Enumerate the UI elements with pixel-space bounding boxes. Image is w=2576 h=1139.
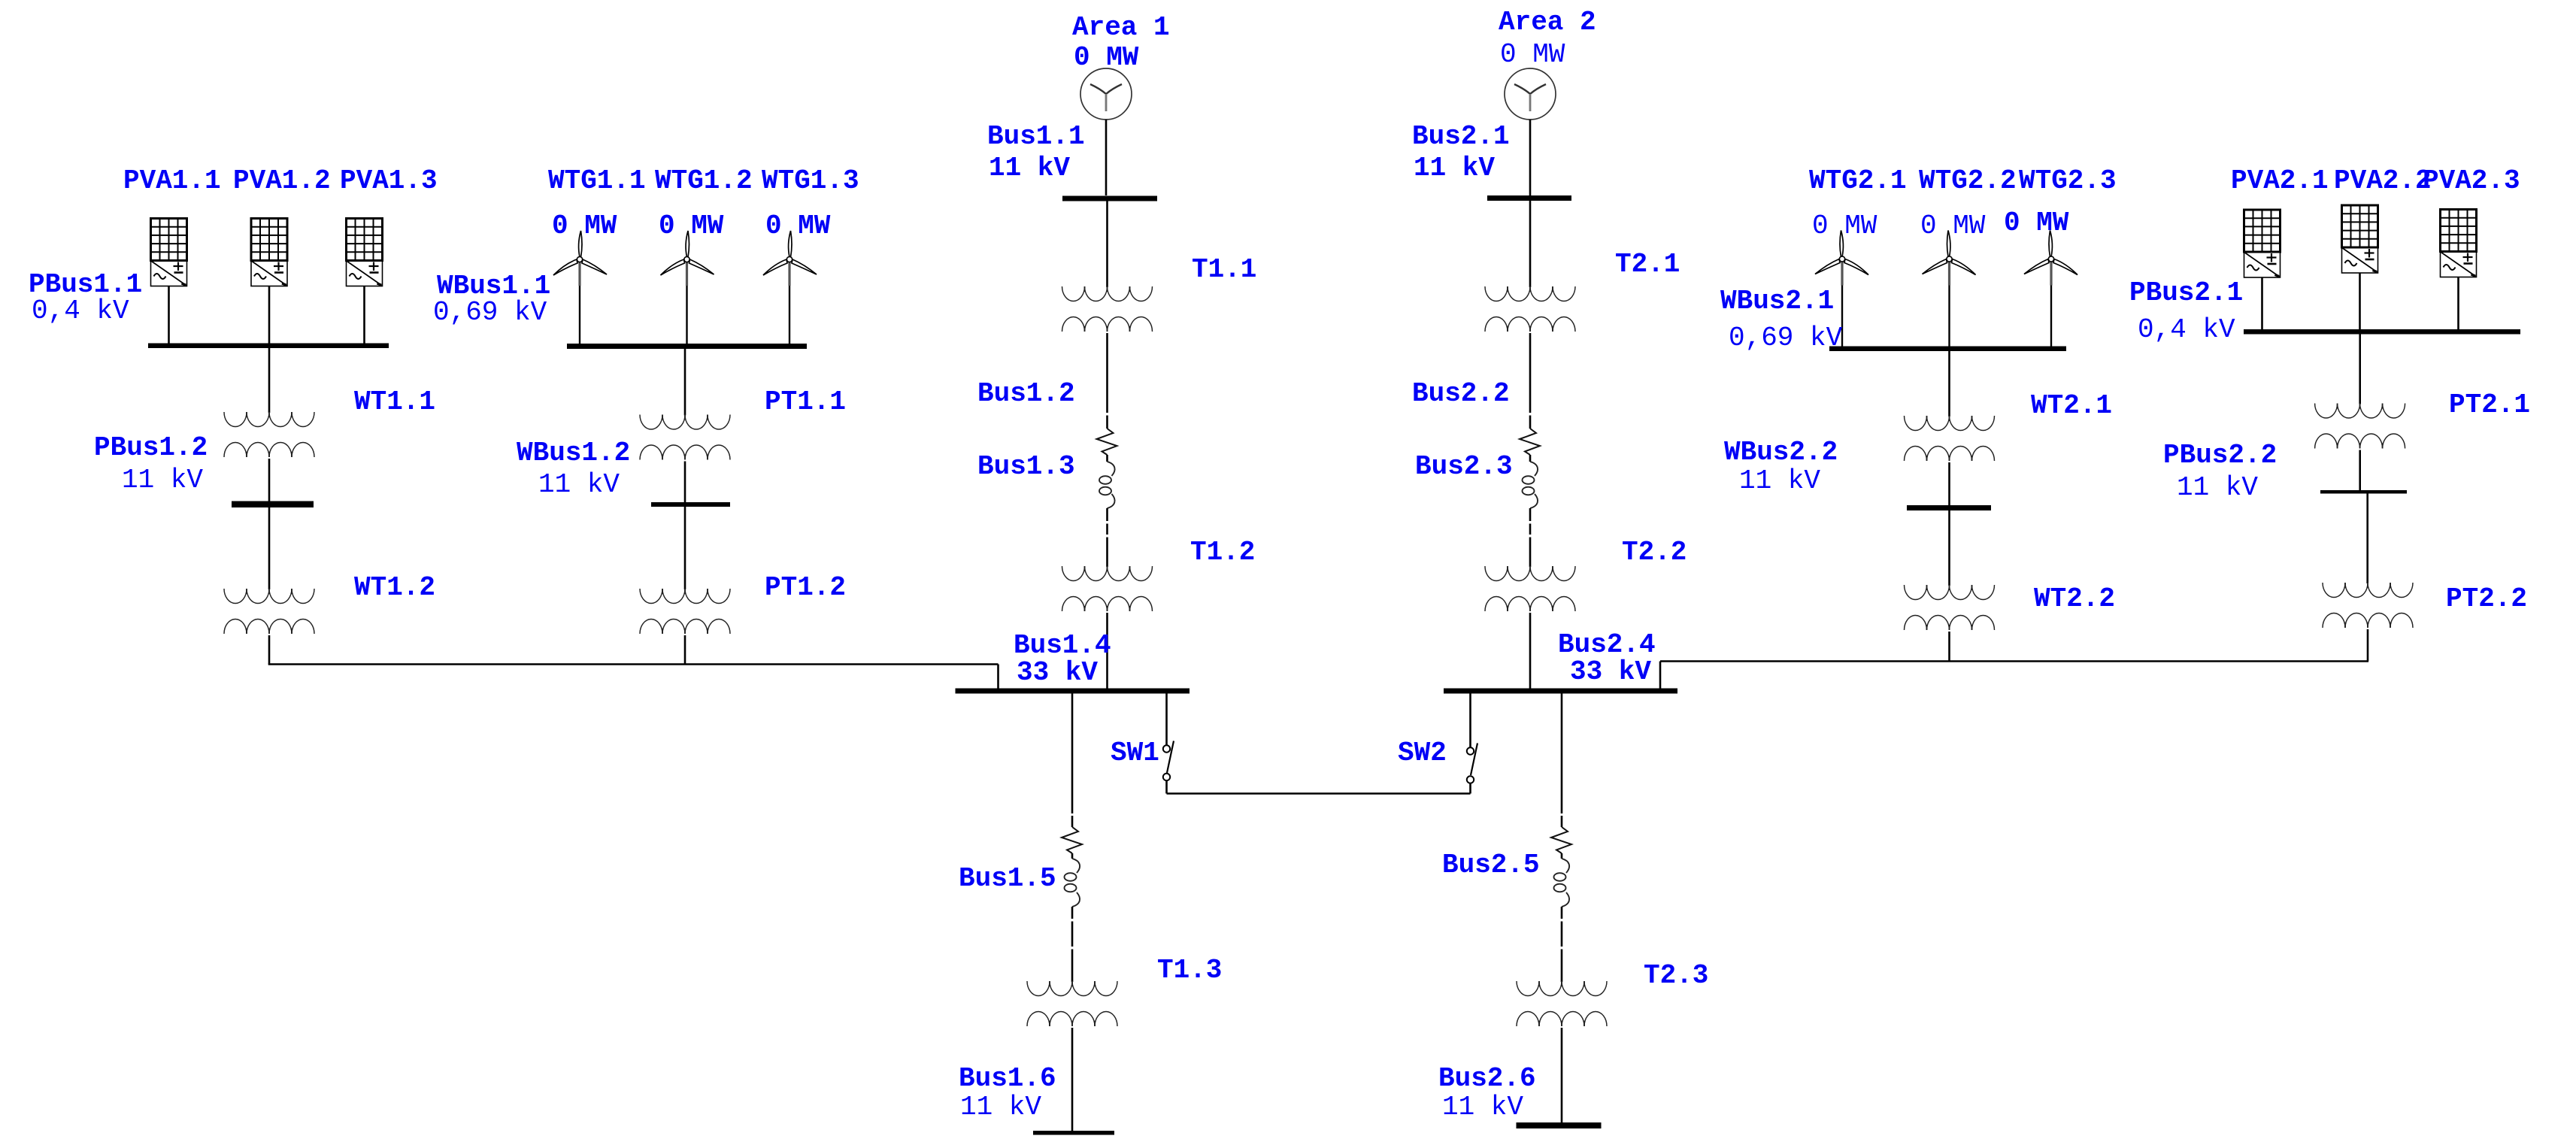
transformer PT1.2 — [640, 589, 730, 634]
wire T2.2 to Bus2.4 — [1529, 613, 1532, 689]
wire line to T1.2 b — [1106, 524, 1108, 535]
wire WBus1.2 to PT1.2 — [684, 507, 686, 589]
node label Bus2.3 — [1415, 451, 1513, 482]
bus PBus1.1 — [148, 344, 389, 349]
wire T1.1 to line Bus1.3 upper — [1106, 333, 1108, 413]
svg-text:Bus2.6: Bus2.6 — [1438, 1063, 1536, 1094]
transformer WT2.1 — [1905, 416, 1995, 461]
bus name Bus1.1 — [987, 121, 1085, 152]
wire PVA2.3 to PBus2.1 — [2457, 277, 2459, 330]
bus name WBus2.1 — [1720, 286, 1834, 317]
wind turbine WTG1.3 — [763, 231, 817, 344]
bus name WBus1.1 — [437, 271, 550, 301]
svg-text:Bus1.2: Bus1.2 — [977, 378, 1075, 409]
PV array PVA1.1 — [151, 219, 187, 286]
svg-text:T1.2: T1.2 — [1190, 537, 1255, 568]
node label Bus1.5 — [959, 863, 1056, 894]
wire line to T1.2 c — [1106, 538, 1108, 568]
svg-text:11 kV: 11 kV — [122, 465, 203, 495]
wire WT2.1 to WBus2.2 — [1948, 462, 1950, 505]
wire right collector drop to Bus2.4 — [1659, 662, 1662, 689]
svg-text:WTG1.2: WTG1.2 — [655, 165, 753, 196]
wire line to T2.2 c — [1529, 538, 1532, 568]
wire PVA2.2 to PBus2.1 — [2359, 273, 2361, 330]
bus WBus1.2 — [651, 502, 730, 507]
switch label SW2 — [1398, 738, 1447, 768]
svg-text:WBus2.1: WBus2.1 — [1720, 286, 1834, 317]
svg-text:T1.3: T1.3 — [1157, 955, 1222, 986]
bus voltage 11 kV — [122, 465, 203, 495]
wire PT1.2 down — [684, 635, 686, 665]
transformer WT2.2 — [1905, 585, 1995, 630]
svg-text:Bus2.5: Bus2.5 — [1442, 850, 1540, 880]
transformer PT1.1 — [640, 415, 730, 460]
wire T1.2 to Bus1.4 — [1106, 613, 1108, 689]
svg-text:0,4 kV: 0,4 kV — [2138, 314, 2235, 345]
wire T2.3 to Bus2.6 — [1561, 1028, 1563, 1122]
value label 0 MW WTG1.1 — [552, 211, 617, 241]
line reactor Bus2.5 — [1551, 827, 1571, 907]
transformer T2.3 — [1517, 981, 1607, 1026]
transformer T1.3 — [1027, 981, 1117, 1026]
value label 0 MW WTG2.3 — [2004, 208, 2069, 238]
bus voltage 0,4 kV — [32, 295, 129, 326]
wire PBus1.2 to WT1.2 — [268, 507, 271, 589]
wire PBus2.1 to PT2.1 — [2359, 335, 2361, 404]
wire WBus2.1 to WT2.1 — [1948, 351, 1950, 417]
label WT1.1 — [354, 386, 435, 417]
PV array PVA1.3 — [347, 219, 383, 286]
label PT2.1 — [2449, 389, 2530, 420]
svg-text:0 MW: 0 MW — [1500, 39, 1565, 70]
bus voltage 11 kV PBus2.2 — [2177, 472, 2258, 503]
node label PVA1.3 — [340, 165, 438, 196]
svg-text:WTG2.2: WTG2.2 — [1919, 165, 2017, 196]
label T2.3 — [1644, 960, 1708, 991]
svg-text:0 MW: 0 MW — [2004, 208, 2069, 238]
bus Bus2.1 — [1487, 195, 1571, 201]
svg-text:11 kV: 11 kV — [989, 153, 1070, 183]
bus name PBus2.1 — [2129, 277, 2243, 308]
wind turbine WTG2.2 — [1923, 231, 1976, 347]
wire PBus2.2 to PT2.2 — [2366, 494, 2368, 584]
wire line Bus2.5 to T2.3 c — [1561, 950, 1563, 983]
label T2.2 — [1622, 537, 1687, 568]
wire PVA1.2 to PBus1.1 — [268, 286, 271, 344]
node label PVA2.3 — [2423, 165, 2520, 196]
svg-text:PBus1.2: PBus1.2 — [94, 432, 208, 463]
line reactor Bus2.2-Bus2.3 — [1520, 429, 1540, 508]
label T1.2 — [1190, 537, 1255, 568]
wire line to T2.2 b — [1529, 524, 1532, 535]
bus Bus2.4 — [1444, 689, 1677, 694]
value label 0 MW Area 2 — [1500, 39, 1565, 70]
wire tie to SW2 — [1469, 783, 1471, 794]
bus voltage 11 kV Bus1.1 — [989, 153, 1070, 183]
PV array PVA2.3 — [2441, 210, 2477, 277]
label WT2.2 — [2034, 583, 2115, 614]
svg-text:0 MW: 0 MW — [659, 211, 724, 241]
bus WBus2.1 — [1829, 347, 2066, 352]
wire line Bus2.3 stub — [1529, 416, 1532, 429]
svg-text:T1.1: T1.1 — [1192, 254, 1256, 285]
node label PVA1.1 — [123, 165, 221, 196]
value label 0 MW Area 1 — [1074, 42, 1139, 73]
transformer WT1.1 — [224, 412, 314, 457]
label T2.1 — [1615, 249, 1680, 280]
svg-text:WT1.1: WT1.1 — [354, 386, 435, 417]
bus name WBus1.2 — [517, 438, 630, 468]
svg-text:11 kV: 11 kV — [538, 469, 620, 500]
transformer PT2.1 — [2315, 404, 2405, 449]
bus voltage 0,4 kV right — [2138, 314, 2235, 345]
generator Area 1 — [1080, 68, 1132, 120]
bus voltage 0,69 kV right — [1729, 323, 1843, 353]
wire Bus1.4 to SW1 — [1165, 694, 1168, 746]
wire line Bus1.5 to T1.3 b — [1071, 922, 1074, 947]
wire Bus2.4 to line Bus2.5 — [1561, 694, 1563, 814]
wire T1.3 to Bus1.6 — [1071, 1028, 1074, 1131]
value label 0 MW WTG1.2 — [659, 211, 724, 241]
svg-text:Bus1.3: Bus1.3 — [977, 451, 1075, 482]
wire tie SW1-SW2 — [1167, 792, 1471, 795]
wire PT2.2 down — [2367, 629, 2369, 662]
wire gen to Bus1.1 — [1105, 120, 1108, 195]
bus name Bus2.1 — [1412, 121, 1510, 152]
wire WBus1.1 to PT1.1 — [684, 349, 686, 416]
bus PBus2.2 — [2320, 490, 2407, 494]
svg-text:Bus1.6: Bus1.6 — [959, 1063, 1056, 1094]
line reactor Bus1.2-Bus1.3 — [1097, 429, 1117, 508]
transformer WT1.2 — [224, 589, 314, 634]
label T1.1 — [1192, 254, 1256, 285]
wire line Bus2.5 to T2.3 a — [1561, 907, 1563, 919]
transformer T1.2 — [1062, 566, 1153, 611]
svg-text:0,69 kV: 0,69 kV — [1729, 323, 1843, 353]
PV array PVA2.1 — [2244, 210, 2281, 277]
node label PVA1.2 — [233, 165, 331, 196]
PV array PVA2.2 — [2342, 205, 2378, 273]
wire gen to Bus2.1 — [1529, 120, 1532, 195]
wire PBus1.1 to WT1.1 — [268, 348, 271, 413]
wind turbine WTG1.2 — [661, 231, 714, 344]
bus Bus1.6 — [1033, 1131, 1114, 1135]
wind turbine WTG2.3 — [2024, 231, 2077, 347]
svg-text:11 kV: 11 kV — [960, 1092, 1041, 1122]
bus voltage 0,69 kV — [433, 297, 547, 328]
bus voltage 33 kV Bus1.4 — [1017, 657, 1098, 688]
wire line Bus2.5 stub — [1561, 816, 1563, 827]
wire right collector horizontal — [1660, 660, 2368, 662]
svg-text:PVA1.3: PVA1.3 — [340, 165, 438, 196]
svg-text:PBus2.1: PBus2.1 — [2129, 277, 2243, 308]
svg-text:PVA2.3: PVA2.3 — [2423, 165, 2520, 196]
svg-text:SW1: SW1 — [1111, 738, 1159, 768]
wire WT2.2 down — [1948, 632, 1950, 662]
bus Bus1.1 — [1062, 196, 1157, 201]
bus name PBus1.1 — [29, 269, 142, 300]
bus name Bus2.6 — [1438, 1063, 1536, 1094]
bus voltage 11 kV WBus2.2 — [1739, 465, 1820, 496]
bus name Bus1.4 — [1014, 630, 1111, 661]
label PT1.1 — [765, 386, 846, 417]
node label PVA2.1 — [2231, 165, 2329, 196]
bus Bus2.6 — [1517, 1122, 1602, 1128]
wire WT1.2 down — [268, 635, 271, 665]
wire WBus2.2 to WT2.2 — [1948, 510, 1950, 586]
svg-text:WTG1.3: WTG1.3 — [762, 165, 859, 196]
svg-text:Bus2.1: Bus2.1 — [1412, 121, 1510, 152]
bus name Bus2.4 — [1558, 629, 1656, 660]
wire Bus1.1 to T1.1 — [1106, 200, 1108, 287]
bus WBus2.2 — [1907, 505, 1991, 510]
svg-text:WBus2.2: WBus2.2 — [1724, 437, 1838, 468]
svg-text:PVA1.1: PVA1.1 — [123, 165, 221, 196]
bus PBus1.2 — [232, 501, 314, 508]
svg-text:0 MW: 0 MW — [1812, 211, 1877, 241]
svg-text:PT1.1: PT1.1 — [765, 386, 846, 417]
bus voltage 11 kV wind — [538, 469, 620, 500]
svg-text:WTG1.1: WTG1.1 — [548, 165, 646, 196]
svg-text:Bus1.5: Bus1.5 — [959, 863, 1056, 894]
svg-text:WTG2.1: WTG2.1 — [1809, 165, 1907, 196]
node label Bus1.2 — [977, 378, 1075, 409]
wire SW2 to Bus2.4 — [1469, 694, 1471, 748]
bus name PBus1.2 — [94, 432, 208, 463]
node label WTG1.1 — [548, 165, 646, 196]
wire WT1.1 to PBus1.2 — [268, 459, 271, 501]
label PT2.2 — [2446, 583, 2527, 614]
svg-text:PVA2.1: PVA2.1 — [2231, 165, 2329, 196]
svg-text:11 kV: 11 kV — [1442, 1092, 1523, 1122]
bus Bus1.4 — [956, 689, 1190, 694]
svg-text:PT2.1: PT2.1 — [2449, 389, 2530, 420]
svg-text:PT2.2: PT2.2 — [2446, 583, 2527, 614]
transformer T2.1 — [1485, 286, 1575, 332]
transformer T1.1 — [1062, 286, 1153, 332]
svg-text:0 MW: 0 MW — [765, 211, 831, 241]
node label WTG1.3 — [762, 165, 859, 196]
wire SW1 to tie — [1165, 780, 1168, 793]
wire line Bus1.5 to T1.3 c — [1071, 950, 1074, 983]
svg-text:11 kV: 11 kV — [1739, 465, 1820, 496]
svg-text:Bus2.2: Bus2.2 — [1412, 378, 1510, 409]
node label WTG2.2 — [1919, 165, 2017, 196]
svg-text:0 MW: 0 MW — [552, 211, 617, 241]
svg-text:Area 2: Area 2 — [1499, 7, 1596, 38]
generator Area 2 — [1505, 68, 1556, 120]
wire T2.1 to line Bus2.3 upper — [1529, 333, 1532, 413]
switch SW1 — [1163, 741, 1174, 781]
wire Bus2.1 to T2.1 — [1529, 200, 1532, 287]
wire PVA2.1 to PBus2.1 — [2261, 277, 2263, 330]
bus WBus1.1 — [567, 344, 807, 349]
svg-text:PVA2.2: PVA2.2 — [2334, 165, 2432, 196]
svg-text:WT2.1: WT2.1 — [2031, 390, 2112, 421]
bus name PBus2.2 — [2163, 440, 2277, 471]
wire line Bus1.3 stub — [1106, 416, 1108, 429]
bus voltage 11 kV Bus1.6 — [960, 1092, 1041, 1122]
wire line to T1.2 a — [1106, 508, 1108, 521]
wind turbine WTG2.1 — [1815, 231, 1868, 347]
bus voltage 33 kV Bus2.4 — [1570, 656, 1651, 687]
bus PBus2.1 — [2244, 329, 2520, 335]
wire PT1.1 to WBus1.2 — [684, 462, 686, 503]
svg-text:Bus1.1: Bus1.1 — [987, 121, 1085, 152]
wire PVA1.1 to PBus1.1 — [168, 286, 170, 344]
wire left collector horizontal — [268, 663, 999, 665]
svg-text:33 kV: 33 kV — [1570, 656, 1651, 687]
switch SW2 — [1467, 744, 1477, 783]
node label Bus2.2 — [1412, 378, 1510, 409]
svg-text:Bus2.3: Bus2.3 — [1415, 451, 1513, 482]
bus voltage 11 kV Bus2.6 — [1442, 1092, 1523, 1122]
wire Bus1.4 to line Bus1.5 — [1071, 694, 1074, 814]
wind turbine WTG1.1 — [553, 231, 607, 344]
svg-text:WBus1.2: WBus1.2 — [517, 438, 630, 468]
label WT2.1 — [2031, 390, 2112, 421]
wire PVA1.3 to PBus1.1 — [363, 286, 365, 344]
svg-text:T2.1: T2.1 — [1615, 249, 1680, 280]
svg-text:Bus2.4: Bus2.4 — [1558, 629, 1656, 660]
svg-text:WT1.2: WT1.2 — [354, 572, 435, 603]
area label Area 2 — [1499, 7, 1596, 38]
node label Bus2.5 — [1442, 850, 1540, 880]
node label WTG2.1 — [1809, 165, 1907, 196]
wire line to T2.2 a — [1529, 508, 1532, 521]
bus name Bus1.6 — [959, 1063, 1056, 1094]
node label PVA2.2 — [2334, 165, 2432, 196]
area label Area 1 — [1072, 12, 1170, 43]
svg-text:T2.3: T2.3 — [1644, 960, 1708, 991]
wire line Bus1.5 to T1.3 a — [1071, 907, 1074, 919]
label T1.3 — [1157, 955, 1222, 986]
value label 0 MW WTG2.2 — [1920, 211, 1986, 241]
svg-text:T2.2: T2.2 — [1622, 537, 1687, 568]
value label 0 MW WTG1.3 — [765, 211, 831, 241]
svg-text:0,69 kV: 0,69 kV — [433, 297, 547, 328]
bus name WBus2.2 — [1724, 437, 1838, 468]
svg-text:0 MW: 0 MW — [1920, 211, 1986, 241]
wire PT2.1 to PBus2.2 — [2359, 450, 2361, 491]
PV array PVA1.2 — [251, 219, 287, 286]
node label WTG1.2 — [655, 165, 753, 196]
switch label SW1 — [1111, 738, 1159, 768]
svg-text:SW2: SW2 — [1398, 738, 1447, 768]
bus voltage 11 kV Bus2.1 — [1414, 153, 1495, 183]
label WT1.2 — [354, 572, 435, 603]
svg-text:11 kV: 11 kV — [1414, 153, 1495, 183]
svg-text:0,4 kV: 0,4 kV — [32, 295, 129, 326]
value label 0 MW WTG2.1 — [1812, 211, 1877, 241]
svg-text:WTG2.3: WTG2.3 — [2019, 165, 2117, 196]
wire line Bus1.5 stub — [1071, 816, 1074, 827]
line reactor Bus1.5 — [1062, 827, 1082, 907]
svg-text:WT2.2: WT2.2 — [2034, 583, 2115, 614]
svg-text:Area 1: Area 1 — [1072, 12, 1170, 43]
wire left collector drop to Bus1.4 — [997, 665, 999, 689]
wire line Bus2.5 to T2.3 b — [1561, 922, 1563, 947]
svg-text:Bus1.4: Bus1.4 — [1014, 630, 1111, 661]
transformer T2.2 — [1485, 566, 1575, 611]
svg-text:11 kV: 11 kV — [2177, 472, 2258, 503]
node label Bus1.3 — [977, 451, 1075, 482]
svg-text:PT1.2: PT1.2 — [765, 572, 846, 603]
transformer PT2.2 — [2323, 583, 2413, 628]
svg-text:PVA1.2: PVA1.2 — [233, 165, 331, 196]
svg-text:33 kV: 33 kV — [1017, 657, 1098, 688]
svg-text:PBus2.2: PBus2.2 — [2163, 440, 2277, 471]
label PT1.2 — [765, 572, 846, 603]
node label WTG2.3 — [2019, 165, 2117, 196]
